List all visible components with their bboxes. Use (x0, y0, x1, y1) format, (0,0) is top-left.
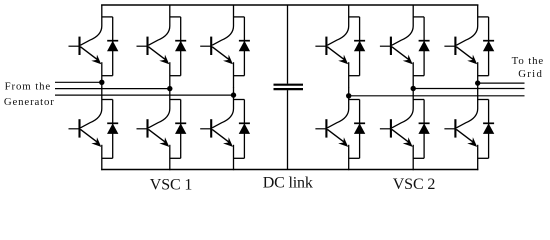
IGBT/diode switch: VSC1 leg-c lower (200, 87, 250, 170)
IGBT/diode switch: VSC2 leg-c upper (444, 5, 494, 88)
node: VSC1 phase-b junction (167, 86, 172, 91)
IGBT/diode switch: VSC1 leg-c upper (200, 5, 250, 88)
top DC bus (+) (101, 4, 478, 6)
IGBT/diode switch: VSC2 leg-c lower (444, 87, 494, 170)
wire: generator phase b (55, 88, 170, 90)
bottom DC bus (-) (101, 169, 478, 171)
IGBT/diode switch: VSC1 leg-b lower (137, 87, 187, 170)
node: VSC2 phase-c junction (346, 93, 351, 98)
node: VSC2 phase-a junction (475, 80, 480, 85)
IGBT/diode switch: VSC2 leg-a lower (315, 87, 365, 170)
svg-text:Grid: Grid (518, 68, 543, 80)
IGBT/diode switch: VSC1 leg-b upper (137, 5, 187, 88)
node: VSC1 phase-a junction (99, 80, 104, 85)
svg-text:VSC 1: VSC 1 (150, 176, 193, 193)
svg-text:From the: From the (5, 81, 52, 93)
wire: grid phase b (413, 88, 524, 90)
svg-text:DC link: DC link (263, 175, 313, 192)
wire: generator phase c (55, 94, 234, 96)
svg-text:VSC 2: VSC 2 (393, 176, 436, 193)
wire: grid phase c (349, 95, 525, 97)
DC-link capacitor C (274, 5, 304, 170)
wire: grid phase a (478, 82, 525, 84)
svg-text:Generator: Generator (4, 96, 55, 108)
IGBT/diode switch: VSC2 leg-b lower (380, 87, 430, 170)
node: VSC2 phase-b junction (411, 86, 416, 91)
IGBT/diode switch: VSC1 leg-a lower (69, 87, 119, 170)
svg-text:To the: To the (512, 55, 545, 67)
IGBT/diode switch: VSC2 leg-a upper (315, 5, 365, 88)
IGBT/diode switch: VSC2 leg-b upper (380, 5, 430, 88)
node: VSC1 phase-c junction (231, 92, 236, 97)
wire: generator phase a (55, 81, 102, 83)
IGBT/diode switch: VSC1 leg-a upper (69, 5, 119, 88)
